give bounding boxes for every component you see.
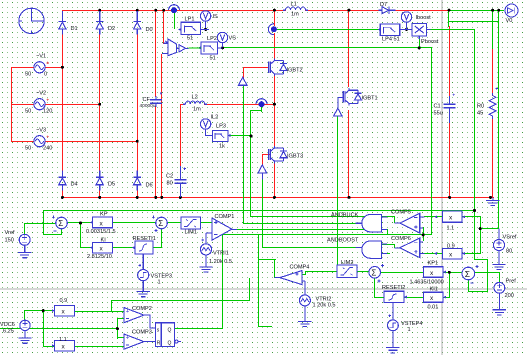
current sensor (boost leg) — [268, 24, 277, 35]
wire: COMP6 out jog — [394, 244, 395, 248]
source VSTEP3 — [138, 262, 149, 291]
comparator COMP3 — [124, 334, 156, 349]
wire: V3 row — [11, 141, 35, 142]
wire: V2 row — [11, 104, 35, 105]
wire: IGBT1 driver drop — [337, 116, 338, 265]
wire: top DC+ rail — [62, 10, 286, 11]
svg-text:D5: D5 — [108, 182, 115, 188]
svg-text:COMP1: COMP1 — [215, 214, 235, 220]
svg-text:COMP3: COMP3 — [132, 330, 152, 336]
ground (VSTEP3) — [137, 292, 150, 297]
svg-text:1.4635/10000: 1.4635/10000 — [410, 280, 444, 286]
svg-text:Pref: Pref — [506, 279, 517, 285]
lead LP4 output — [400, 28, 412, 30]
wire: branch into KI input — [80, 247, 93, 248]
wire: LIM1 out to COMP1 — [200, 222, 212, 223]
wire: 1.1 block to COMP5 minus — [424, 216, 442, 217]
voltage sensor (input) — [162, 39, 177, 56]
wire: left edge line y328.6 — [0, 328, 118, 329]
gain block 0.9 (VSref lower) — [434, 248, 465, 259]
wire: input sensor + column upper — [163, 10, 164, 44]
source V2 — [34, 99, 49, 110]
wire: L2 row to sensor and IGBT column — [180, 104, 184, 105]
on-off controller (IGBT1 driver) — [334, 108, 343, 116]
svg-text:~V2: ~V2 — [36, 91, 46, 97]
svg-text:Pboost: Pboost — [421, 39, 439, 45]
wire: COMP2-/COMP3+ tie — [117, 318, 118, 339]
gain block KP1 — [424, 267, 447, 278]
filter LP2 — [198, 42, 217, 54]
svg-text:VSTEP4: VSTEP4 — [401, 321, 422, 327]
source V1 — [34, 62, 49, 73]
svg-text:0.9: 0.9 — [60, 298, 68, 304]
svg-text:ANDBUCK: ANDBUCK — [331, 213, 359, 219]
svg-text:1 20k 0.5: 1 20k 0.5 — [209, 259, 232, 265]
wire: Pref to summer4 plus — [475, 272, 499, 273]
svg-text:D1: D1 — [71, 26, 78, 32]
wire: x249.6 link — [249, 278, 250, 301]
wire: IS sensor tap — [174, 11, 175, 29]
current sensor (top rail) — [169, 5, 180, 14]
svg-text:V0: V0 — [506, 18, 513, 24]
AND gate ANDBOOST — [355, 241, 387, 258]
wire: KP1/KI1 input column — [449, 272, 450, 298]
svg-text:LIM2: LIM2 — [341, 260, 353, 266]
capacitor CF — [150, 92, 162, 107]
wire: buck gate row y223.2 — [243, 223, 356, 224]
svg-text:240: 240 — [43, 146, 52, 152]
svg-text:Iboost: Iboost — [416, 15, 432, 21]
wire: VDC6 to 0.9/1.1 blocks — [24, 310, 54, 311]
svg-text:VSTEP3: VSTEP3 — [151, 274, 172, 280]
ground (Pref) — [493, 310, 506, 315]
svg-text:Q: Q — [168, 327, 172, 333]
source VTRI1 — [200, 233, 212, 267]
svg-text:LP2: LP2 — [207, 36, 217, 42]
svg-text:80: 80 — [167, 181, 173, 187]
wire: 1.1 out to COMP3 — [74, 346, 124, 347]
svg-text:VTRI1: VTRI1 — [213, 251, 229, 257]
source Pref — [494, 282, 505, 309]
svg-text:KI1: KI1 — [430, 287, 438, 293]
svg-text:KP: KP — [100, 212, 108, 218]
svg-text:LP4 51: LP4 51 — [382, 37, 400, 43]
svg-text:0.00315/1.5: 0.00315/1.5 — [86, 229, 116, 235]
svg-text:1: 1 — [408, 327, 411, 333]
wire: RESETI1 out — [153, 247, 161, 248]
diode D4 — [59, 171, 66, 191]
current sensor (L2) — [256, 99, 267, 108]
svg-text:LIM1: LIM1 — [185, 230, 197, 236]
svg-text:80: 80 — [506, 249, 512, 255]
svg-text:IL2: IL2 — [211, 115, 219, 121]
wire: KP1 out to summer3 — [380, 272, 423, 273]
svg-text:1 20k 0.5: 1 20k 0.5 — [313, 303, 336, 309]
wire: COMP4 output path — [274, 259, 275, 278]
wire: summer2 out to LIM1 — [167, 222, 181, 223]
svg-text:D6: D6 — [146, 183, 153, 189]
wire: R0 column green top — [492, 10, 493, 49]
summer S1 — [52, 216, 68, 231]
diode D0 — [134, 11, 141, 35]
wire: IL2 line down to logic — [250, 136, 251, 217]
svg-text:L1: L1 — [291, 2, 297, 8]
lead LP1 output — [201, 28, 210, 30]
page boundary gray horizontal — [0, 289, 527, 290]
svg-text:COMP5: COMP5 — [391, 210, 411, 216]
wire: IL2 sensor tap — [261, 106, 262, 112]
filter LP1 — [178, 22, 201, 34]
svg-text:VS: VS — [229, 36, 237, 42]
svg-text:1m: 1m — [291, 12, 299, 18]
diode D6 — [134, 171, 141, 191]
svg-text:0: 0 — [44, 72, 47, 78]
svg-text:VDC6: VDC6 — [0, 322, 15, 328]
svg-text:200: 200 — [505, 293, 514, 299]
wire: source left bus vertical — [11, 67, 12, 142]
svg-text:IS: IS — [213, 14, 219, 20]
wire: RESETI2 out to summer3 — [374, 297, 384, 298]
svg-text:51: 51 — [210, 56, 216, 62]
gain block 0.9 (bottom) — [52, 305, 75, 316]
on-off controller (IGBT2 driver) — [239, 77, 248, 85]
source V3 — [34, 136, 49, 147]
wire: VS line vertical drop — [431, 47, 432, 235]
capacitor C2 — [174, 166, 186, 197]
integrator RESETI1 — [132, 241, 153, 262]
svg-text:D0: D0 — [146, 27, 153, 33]
summer S4 — [462, 265, 479, 283]
summer S2 — [152, 216, 168, 232]
filter LP4 — [378, 24, 400, 36]
wire: summer1 feedback — [43, 210, 44, 235]
svg-text:COMP6: COMP6 — [391, 236, 411, 242]
svg-text:55u: 55u — [434, 111, 443, 117]
svg-text:Vref: Vref — [5, 230, 15, 236]
svg-text:COMP2: COMP2 — [132, 306, 152, 312]
svg-text:RESETI2: RESETI2 — [382, 285, 405, 291]
capacitor C1 — [444, 94, 456, 123]
wire: KI out to RESETI1 — [112, 247, 134, 248]
svg-text:6.25: 6.25 — [3, 329, 14, 335]
wire: LP3 row — [228, 135, 252, 136]
svg-text:1m: 1m — [193, 107, 201, 113]
svg-text:IGBT1: IGBT1 — [362, 96, 378, 102]
limiter LIM1 — [181, 217, 201, 229]
svg-text:D4: D4 — [71, 182, 78, 188]
wire: mode row y234.9 — [222, 234, 432, 235]
wire: flipflop Q up-line — [222, 234, 223, 328]
wire: LIM2 out to COMP4 — [305, 271, 337, 272]
wire: Pboost bottom lead to VS line — [419, 36, 420, 48]
source VDC6 — [20, 320, 30, 338]
svg-text:1.1: 1.1 — [447, 226, 455, 232]
svg-text:R0: R0 — [477, 104, 484, 110]
IGBT1 — [338, 88, 362, 108]
wire: IGBT1 column — [348, 10, 349, 87]
svg-text:Q: Q — [168, 340, 172, 346]
voltmeter Iboost — [401, 12, 411, 29]
diode D2 — [96, 11, 103, 35]
wire: KP out to summer2 — [112, 222, 156, 223]
svg-text:1k: 1k — [219, 144, 225, 150]
voltmeter VS — [217, 32, 227, 47]
svg-text:CF: CF — [143, 97, 151, 103]
ground (VTRI2) — [298, 321, 311, 326]
svg-text:50: 50 — [25, 146, 31, 152]
wire: COMP5 output jog — [394, 216, 395, 223]
svg-text:~V1: ~V1 — [36, 54, 46, 60]
wire: IGBT2 driver drop — [243, 85, 244, 223]
svg-text:0.9: 0.9 — [447, 244, 455, 250]
lead LP2 output — [217, 47, 222, 49]
wire: 0.9 out to COMP2 — [74, 311, 124, 312]
ground (VSTEP4) — [386, 348, 399, 353]
voltmeter IS — [200, 11, 210, 28]
comparator COMP2 — [124, 308, 156, 328]
svg-text:Σ: Σ — [465, 269, 470, 279]
diode D1 — [59, 11, 66, 35]
ground (Vref) — [18, 253, 31, 258]
svg-text:L2: L2 — [192, 95, 198, 101]
svg-text:Σ: Σ — [371, 269, 376, 278]
comparator COMP5 — [395, 213, 425, 233]
wire: Iboost sensor tap row — [277, 29, 380, 30]
svg-text:KP1: KP1 — [428, 261, 439, 267]
ground (VTRI1) — [199, 267, 212, 272]
svg-text:150: 150 — [5, 238, 14, 244]
svg-text:40000u: 40000u — [140, 103, 156, 109]
multiplier Pboost — [412, 23, 431, 39]
resistor R0 — [489, 87, 498, 119]
wire: COMP4 net column x257.9 — [258, 234, 259, 326]
clock symbol — [19, 8, 44, 33]
svg-text:D7: D7 — [380, 2, 387, 8]
gain block 1.1 (VSref upper) — [434, 211, 465, 222]
svg-text:Σ: Σ — [58, 219, 63, 228]
comparator COMP4 — [275, 271, 305, 296]
svg-text:51: 51 — [187, 36, 193, 42]
svg-text:45: 45 — [477, 111, 483, 117]
wire: boost gate row y247.5 — [262, 247, 356, 248]
svg-text:KI: KI — [101, 238, 107, 244]
voltage probe V0 — [505, 4, 518, 17]
svg-text:0.01: 0.01 — [428, 305, 439, 311]
svg-text:D2: D2 — [108, 26, 115, 32]
svg-text:1: 1 — [158, 280, 161, 286]
gain block KP — [90, 217, 113, 228]
diode D7 — [379, 7, 396, 14]
wire: KI1 out to RESETI2 — [404, 297, 424, 298]
limiter LIM2 — [337, 265, 357, 278]
wire: top rail green segment to V0 — [448, 10, 504, 11]
IGBT2 — [269, 59, 287, 77]
svg-text:C1: C1 — [434, 104, 441, 110]
summer S3 — [369, 264, 384, 283]
wire: IGBT2 gate — [243, 67, 269, 68]
SR flip-flop — [156, 323, 181, 347]
wire: summer3 to LIM2 — [357, 271, 369, 272]
wire: KI branch — [80, 222, 81, 247]
svg-text:R: R — [157, 340, 161, 346]
svg-text:C2: C2 — [166, 174, 173, 180]
wire: sense row y210.5 — [43, 210, 475, 211]
gain block KI1 — [424, 292, 447, 302]
ground (VDC6) — [18, 338, 31, 343]
svg-text:COMP4: COMP4 — [290, 265, 310, 271]
AND gate ANDBUCK — [355, 215, 387, 232]
wire: D7 anode stub — [374, 10, 379, 11]
gain block KI — [90, 242, 113, 253]
wire: Vref to summer1 — [24, 223, 25, 234]
svg-text:2.8125/10: 2.8125/10 — [87, 254, 112, 260]
svg-text:50: 50 — [25, 109, 31, 115]
source VTRI2 — [299, 295, 310, 321]
wire: D0/D6 column — [137, 10, 138, 18]
wire: Pboost to summer4 minus — [468, 280, 469, 292]
wire: ANDBUCK in2 jog — [387, 229, 388, 235]
gain block 1.1 (bottom) — [52, 340, 75, 351]
on-off controller (IGBT3 driver) — [258, 165, 267, 180]
svg-text:Σ: Σ — [158, 219, 163, 228]
svg-text:IGBT2: IGBT2 — [287, 68, 303, 74]
wire: summer1 out — [67, 222, 92, 223]
svg-text:120: 120 — [43, 109, 52, 115]
integrator RESETI2 — [384, 291, 407, 320]
wire: R0 column — [492, 48, 493, 96]
wire: Q row y328.6 — [175, 328, 223, 329]
svg-text:VSref: VSref — [503, 235, 517, 241]
wire: Pboost output down-line — [430, 29, 474, 30]
svg-text:LP1: LP1 — [185, 17, 195, 23]
diode D5 — [96, 171, 103, 191]
IGBT3 — [269, 146, 287, 164]
wire: green link y21 — [448, 21, 498, 22]
svg-text:RESETI1: RESETI1 — [133, 236, 156, 242]
svg-text:LP3: LP3 — [216, 124, 226, 130]
wire: COMP5+/COMP6- column — [423, 227, 424, 241]
wire: CF column — [155, 10, 156, 97]
svg-text:ANDBOOST: ANDBOOST — [327, 238, 359, 244]
gain triangle (sensor amp) — [176, 45, 201, 52]
svg-text:50: 50 — [25, 72, 31, 78]
wire: IGBT3 gate — [262, 154, 270, 155]
wire: D2/D5 column — [99, 10, 100, 18]
page boundary gray vertical — [442, 0, 443, 355]
wire: VS line horizontal — [222, 47, 432, 48]
wire: bottom DC- rail — [62, 197, 494, 198]
wire: summer4 out to KP1 col — [449, 272, 462, 273]
wire: IGBT3 driver drop — [262, 179, 263, 248]
svg-text:IGBT3: IGBT3 — [287, 154, 303, 160]
wire: VSref junction column — [480, 216, 481, 254]
comparator COMP1 — [212, 218, 237, 240]
wire: V0 sense column — [498, 10, 499, 229]
wire: IL2/COMP5 row y217 — [250, 216, 394, 217]
wire: VSref row y228.6 — [480, 228, 499, 229]
svg-text:1.1: 1.1 — [59, 337, 67, 343]
wire: 0.9 block row y253.5 — [424, 253, 442, 254]
wire: IGBT2/IGBT3 column — [274, 10, 275, 26]
inductor L1 — [283, 7, 308, 10]
comparator COMP6 — [395, 238, 425, 258]
wire: L2 left / C2 column — [180, 104, 181, 167]
wire: D1/D4 column — [62, 10, 63, 18]
source VSTEP4 — [388, 314, 399, 347]
source Vref — [19, 234, 30, 252]
source VSref — [493, 229, 504, 265]
svg-text:~V3: ~V3 — [36, 128, 46, 134]
wire: V1 row — [11, 67, 35, 68]
ground (DC- rail) — [486, 197, 500, 205]
ground (VSref) — [492, 264, 505, 269]
voltmeter IL2 — [200, 119, 212, 136]
filter LP3 — [212, 131, 230, 142]
wire: input sensor - column lower — [161, 54, 162, 198]
wire: COMP1 out row y229.4 — [237, 229, 381, 230]
inductor L2 — [183, 101, 207, 104]
wire: C1 column — [449, 26, 450, 96]
